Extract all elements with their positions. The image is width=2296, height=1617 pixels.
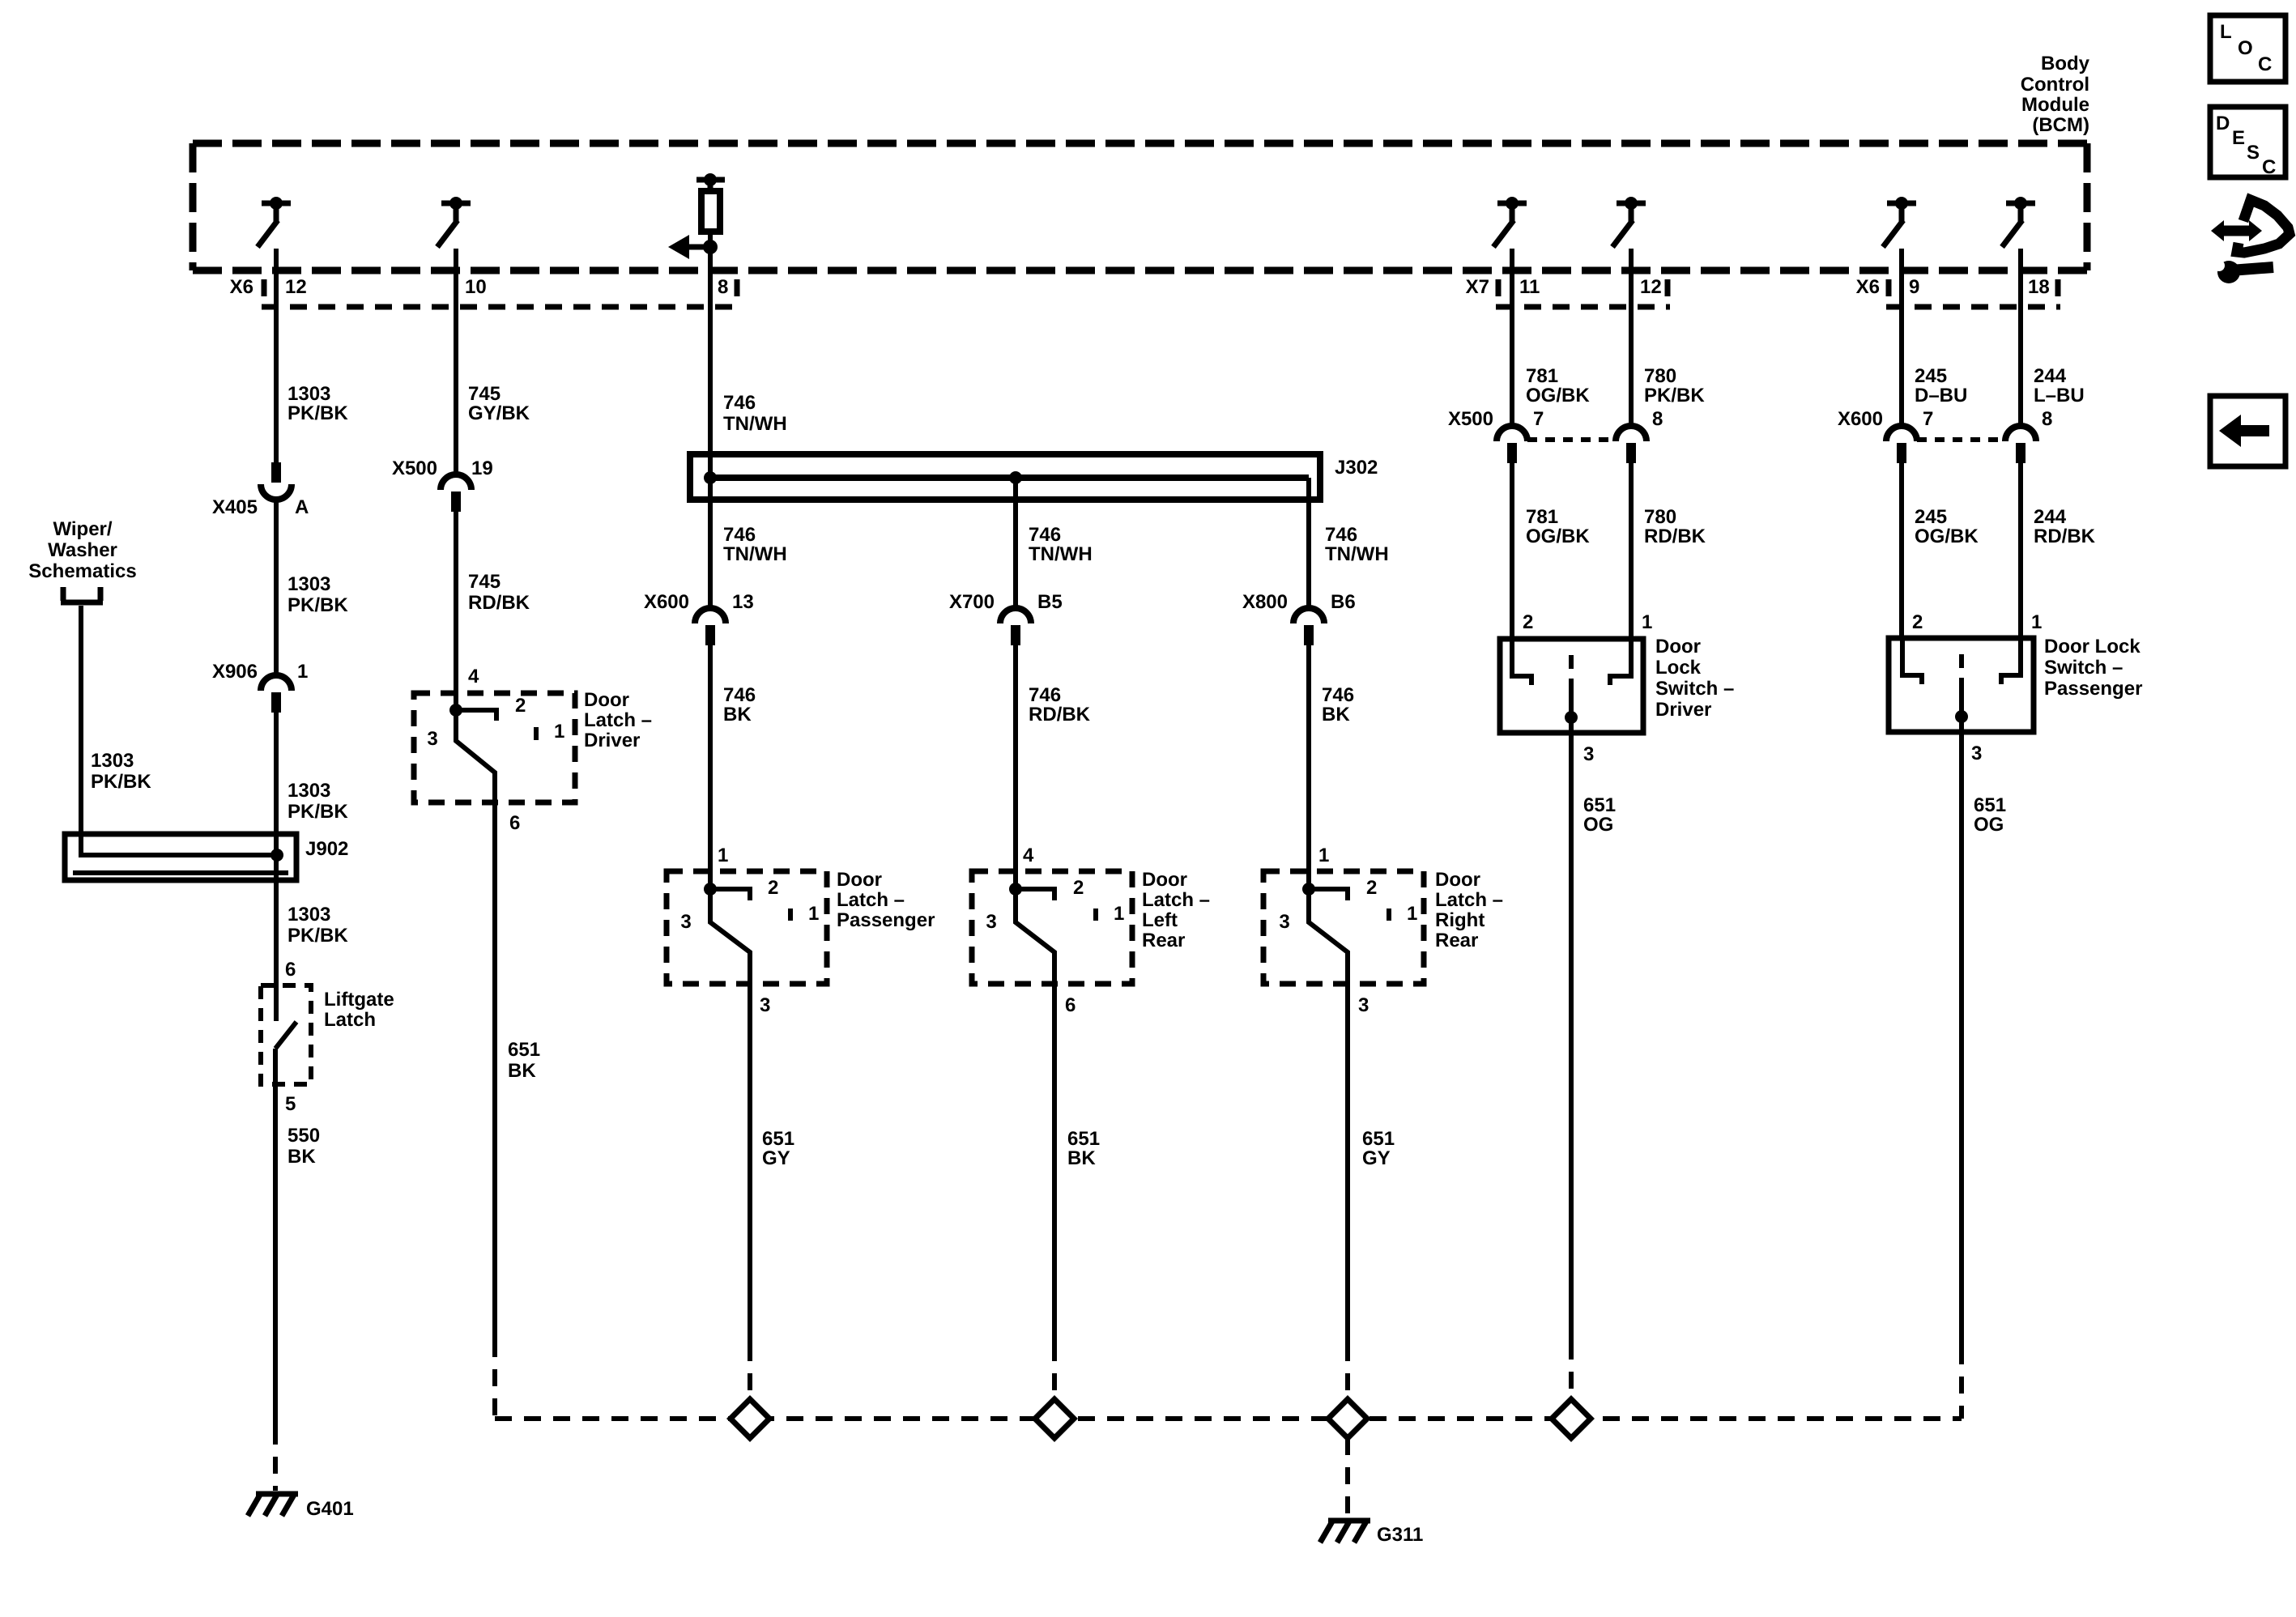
- wire label 746 TN/WH: [1029, 524, 1093, 565]
- svg-text:TN/WH: TN/WH: [723, 543, 787, 565]
- ground G311: [1320, 1521, 1370, 1543]
- wire label 1303 PK/BK: [288, 904, 348, 947]
- svg-text:244: 244: [2034, 365, 2067, 387]
- BCM output driver Q (pin X6-12): [258, 197, 291, 247]
- svg-text:4: 4: [468, 666, 479, 687]
- wire label 746 BK: [1322, 684, 1354, 726]
- svg-text:J302: J302: [1335, 457, 1378, 479]
- wire label 746 TN/WH: [1325, 524, 1389, 565]
- svg-text:3: 3: [1971, 743, 1982, 764]
- svg-text:Driver: Driver: [1655, 699, 1711, 721]
- svg-text:Body: Body: [2041, 53, 2090, 74]
- svg-text:BK: BK: [723, 704, 752, 726]
- wire 781 OG/BK (X500 to door lock switch driver): [1510, 463, 1514, 639]
- svg-text:651: 651: [1583, 794, 1616, 816]
- svg-text:6: 6: [285, 959, 296, 981]
- svg-text:C: C: [2262, 156, 2276, 178]
- svg-text:13: 13: [732, 591, 754, 613]
- svg-text:11: 11: [1519, 276, 1540, 298]
- svg-text:2: 2: [515, 695, 526, 717]
- splice diamond (651 OG driver switch): [1552, 1399, 1591, 1438]
- wire label 244 RD/BK: [2034, 506, 2096, 547]
- dashed wire to ground bus corner: [492, 1340, 497, 1419]
- svg-text:Rear: Rear: [1142, 930, 1185, 951]
- svg-text:746: 746: [1325, 524, 1357, 546]
- svg-text:746: 746: [723, 392, 756, 414]
- wire label 245 D-BU: [1915, 365, 1967, 406]
- svg-text:OG/BK: OG/BK: [1915, 526, 1979, 547]
- svg-text:Door: Door: [1435, 869, 1480, 891]
- wire 651 OG (driver lock switch to ground bus): [1569, 733, 1574, 1343]
- wire label 1303 PK/BK: [288, 573, 348, 616]
- wire 780 PK/BK (BCM X7-12 to X500): [1629, 249, 1634, 428]
- svg-text:Passenger: Passenger: [2044, 678, 2142, 700]
- wire 550 BK (liftgate latch to G401): [273, 1049, 278, 1428]
- svg-text:GY: GY: [1362, 1147, 1391, 1169]
- wire label 781 OG/BK: [1526, 365, 1590, 406]
- svg-text:OG: OG: [1583, 814, 1613, 836]
- svg-text:PK/BK: PK/BK: [288, 801, 348, 823]
- svg-text:7: 7: [1923, 408, 1933, 430]
- svg-text:Driver: Driver: [584, 730, 640, 751]
- svg-text:Module: Module: [2021, 94, 2089, 116]
- svg-text:X500: X500: [392, 457, 437, 479]
- connector X700 pin B5: [1000, 608, 1031, 645]
- svg-text:Schematics: Schematics: [28, 560, 136, 582]
- svg-text:TN/WH: TN/WH: [723, 413, 787, 435]
- off-page reference: Wiper/Washer Schematics: [28, 518, 136, 602]
- door latch passenger dashed box: [667, 871, 827, 984]
- door lock switch passenger box: [1889, 638, 2034, 732]
- BCM label: [2021, 53, 2090, 136]
- wire label 745 RD/BK: [468, 571, 530, 614]
- wire 746 TN/WH (J302 to X600): [708, 478, 713, 610]
- svg-text:19: 19: [471, 457, 493, 479]
- splice J302: [690, 454, 1320, 500]
- svg-text:Door: Door: [584, 689, 629, 711]
- svg-text:781: 781: [1526, 506, 1558, 528]
- svg-text:1: 1: [808, 903, 819, 925]
- svg-text:4: 4: [1023, 845, 1034, 866]
- svg-text:BK: BK: [1322, 704, 1350, 726]
- svg-text:Switch –: Switch –: [2044, 657, 2123, 679]
- svg-text:D–BU: D–BU: [1915, 385, 1967, 406]
- svg-text:2: 2: [1073, 877, 1084, 899]
- label Door Latch - Driver: [584, 689, 652, 751]
- wire label 651 BK: [508, 1039, 540, 1082]
- svg-text:3: 3: [427, 728, 437, 750]
- svg-text:651: 651: [762, 1128, 794, 1150]
- svg-text:PK/BK: PK/BK: [1644, 385, 1705, 406]
- svg-text:E: E: [2232, 127, 2245, 149]
- svg-text:1: 1: [554, 721, 564, 743]
- wire label 245 OG/BK: [1915, 506, 1979, 547]
- svg-text:X7: X7: [1466, 276, 1489, 298]
- ground G401: [248, 1494, 298, 1516]
- ground bus dashed wire: [495, 1416, 1962, 1421]
- label Liftgate Latch: [324, 989, 394, 1031]
- splice diamond (651 GY passenger): [731, 1399, 769, 1438]
- wire label 651 GY: [762, 1128, 794, 1169]
- svg-text:OG/BK: OG/BK: [1526, 526, 1590, 547]
- wire label 780 RD/BK: [1644, 506, 1706, 547]
- back arrow icon box: [2210, 396, 2285, 466]
- svg-text:3: 3: [986, 911, 996, 933]
- svg-text:9: 9: [1909, 276, 1919, 298]
- svg-text:B5: B5: [1037, 591, 1063, 613]
- wire label 1303 PK/BK: [91, 750, 151, 793]
- wire label 745 GY/BK: [468, 383, 530, 424]
- svg-text:G311: G311: [1377, 1524, 1423, 1546]
- svg-text:3: 3: [1358, 994, 1369, 1016]
- svg-text:5: 5: [285, 1093, 296, 1115]
- connector X600 pin 13: [695, 608, 726, 645]
- wire resistor to node, junction: [703, 232, 718, 254]
- svg-text:550: 550: [288, 1125, 320, 1147]
- wire 746 RD/BK (X700 to door latch left rear): [1013, 645, 1018, 892]
- wire 781 OG/BK (BCM X7-11 to X500): [1510, 249, 1514, 428]
- svg-text:G401: G401: [306, 1498, 354, 1520]
- wire label 780 PK/BK: [1644, 365, 1705, 406]
- liftgate latch switch blade: [275, 1022, 296, 1049]
- wire 651 GY (right rear latch to ground bus): [1345, 984, 1350, 1344]
- wire 1303 PK/BK (X906 to J902 and liftgate): [274, 713, 279, 1021]
- svg-text:Switch –: Switch –: [1655, 678, 1734, 700]
- svg-text:781: 781: [1526, 365, 1558, 387]
- svg-text:X700: X700: [949, 591, 995, 613]
- svg-text:244: 244: [2034, 506, 2067, 528]
- connector X500 pin 7: [1497, 426, 1527, 463]
- svg-text:3: 3: [680, 911, 691, 933]
- wire 746 BK (X600 to door latch passenger): [708, 645, 713, 892]
- svg-text:746: 746: [1029, 684, 1061, 706]
- svg-text:BK: BK: [508, 1060, 536, 1082]
- svg-text:1303: 1303: [288, 780, 330, 802]
- connector pin row X6 left (pins 12,10,8): [262, 279, 739, 307]
- wire 780 RD/BK (X500 to door lock switch driver): [1629, 463, 1634, 639]
- svg-text:PK/BK: PK/BK: [91, 771, 151, 793]
- svg-text:X600: X600: [1838, 408, 1883, 430]
- dashed wire to ground bus: [1569, 1343, 1574, 1400]
- svg-text:Control: Control: [2021, 74, 2089, 96]
- svg-text:L: L: [2220, 21, 2232, 43]
- svg-text:Latch –: Latch –: [1435, 889, 1503, 911]
- svg-text:Door: Door: [837, 869, 882, 891]
- door lock switch driver box: [1500, 639, 1643, 733]
- door latch right rear dashed box: [1263, 871, 1424, 984]
- svg-text:Rear: Rear: [1435, 930, 1478, 951]
- wire 651 GY (passenger latch to ground bus): [748, 984, 752, 1344]
- svg-text:1: 1: [1407, 903, 1417, 925]
- wire 651 BK (left rear latch to ground bus): [1052, 984, 1057, 1344]
- BCM output driver Q (pin X7-12): [1612, 197, 1646, 247]
- label Door Lock Switch - Driver: [1655, 636, 1734, 721]
- svg-text:Latch –: Latch –: [1142, 889, 1210, 911]
- wire label 746 TN/WH: [723, 524, 787, 565]
- connector X600 pin 7: [1886, 426, 1917, 463]
- svg-text:Latch –: Latch –: [584, 709, 652, 731]
- door latch passenger switch: [704, 883, 790, 984]
- svg-text:X906: X906: [212, 661, 258, 683]
- svg-text:8: 8: [718, 276, 728, 298]
- wire 746 TN/WH (J302 to X800): [1306, 478, 1311, 610]
- svg-text:Latch: Latch: [324, 1009, 376, 1031]
- wire 745 GY/BK (BCM X6-10 to X500): [454, 249, 458, 476]
- svg-text:D: D: [2216, 113, 2230, 134]
- svg-text:Lock: Lock: [1655, 657, 1702, 679]
- wire label 746 BK: [723, 684, 756, 726]
- svg-text:245: 245: [1915, 365, 1947, 387]
- svg-text:X600: X600: [644, 591, 689, 613]
- resistor R internal to BCM on pin X6-8: [696, 173, 725, 232]
- svg-text:6: 6: [1065, 994, 1076, 1016]
- svg-text:Right: Right: [1435, 909, 1485, 931]
- connector X500 pin 8: [1616, 426, 1646, 463]
- splice diamond (651 BK left rear): [1035, 1399, 1074, 1438]
- svg-text:RD/BK: RD/BK: [1644, 526, 1706, 547]
- svg-text:Liftgate: Liftgate: [324, 989, 394, 1011]
- wire label 746 TN/WH: [723, 392, 787, 435]
- svg-text:PK/BK: PK/BK: [288, 402, 348, 424]
- dashed wire to ground bus: [1345, 1344, 1350, 1400]
- wire 651 OG (passenger lock switch to ground bus): [1959, 732, 1964, 1347]
- wire 244 RD/BK (X600 to door lock switch passenger): [2018, 463, 2023, 638]
- wire label 746 RD/BK: [1029, 684, 1091, 726]
- svg-text:OG/BK: OG/BK: [1526, 385, 1590, 406]
- wire label 651 GY: [1362, 1128, 1395, 1169]
- svg-text:C: C: [2258, 53, 2272, 75]
- svg-text:651: 651: [1067, 1128, 1100, 1150]
- connector X500 pin 19: [441, 474, 471, 512]
- door lock switch passenger contacts: [1902, 638, 2021, 732]
- wire 746 TN/WH (J302 to X700): [1013, 478, 1018, 610]
- svg-text:X500: X500: [1448, 408, 1493, 430]
- wire 1303 PK/BK from wiper/washer: [81, 606, 277, 855]
- svg-text:780: 780: [1644, 365, 1676, 387]
- svg-text:2: 2: [1912, 611, 1923, 633]
- svg-text:Passenger: Passenger: [837, 909, 935, 931]
- wire 1303 PK/BK (BCM X6-12 to X405): [274, 249, 279, 464]
- svg-text:X6: X6: [1856, 276, 1880, 298]
- svg-text:1: 1: [718, 845, 728, 866]
- svg-text:2: 2: [1366, 877, 1377, 899]
- door latch driver switch: [449, 704, 536, 802]
- svg-text:8: 8: [2042, 408, 2052, 430]
- svg-text:12: 12: [1640, 276, 1662, 298]
- connector X500 body dashed link: [1527, 437, 1616, 442]
- svg-text:7: 7: [1533, 408, 1544, 430]
- svg-text:RD/BK: RD/BK: [1029, 704, 1091, 726]
- svg-text:Wiper/: Wiper/: [53, 518, 112, 540]
- svg-text:RD/BK: RD/BK: [468, 592, 530, 614]
- svg-text:Door: Door: [1655, 636, 1701, 657]
- svg-text:651: 651: [508, 1039, 540, 1061]
- dashed wire to ground bus: [748, 1344, 752, 1400]
- label Door Latch - Right Rear: [1435, 869, 1503, 951]
- repair instructions icon (connector with arrows and wrench): [2211, 200, 2290, 283]
- svg-text:O: O: [2238, 37, 2253, 59]
- svg-text:1: 1: [1318, 845, 1329, 866]
- BCM output driver Q (pin X6-18): [2002, 197, 2035, 247]
- dashed wire diamond to G311: [1345, 1438, 1350, 1516]
- svg-text:780: 780: [1644, 506, 1676, 528]
- svg-text:1: 1: [1642, 611, 1652, 633]
- dashed wire to ground: [273, 1428, 278, 1491]
- BCM output driver Q (pin X6-9): [1883, 197, 1916, 247]
- signal arrow (BCM input sense): [668, 235, 710, 259]
- wire label 781 OG/BK: [1526, 506, 1590, 547]
- svg-text:1: 1: [2031, 611, 2042, 633]
- connector X600 pin 8: [2005, 426, 2036, 463]
- svg-text:TN/WH: TN/WH: [1325, 543, 1389, 565]
- svg-text:GY: GY: [762, 1147, 790, 1169]
- svg-text:12: 12: [285, 276, 307, 298]
- svg-text:Door Lock: Door Lock: [2044, 636, 2141, 657]
- wire 1303 PK/BK (X405 to X906): [274, 500, 279, 677]
- svg-text:746: 746: [1029, 524, 1061, 546]
- connector pin row X7 (pins 11,12): [1496, 279, 1670, 307]
- dashed wire corner to ground bus: [1959, 1347, 1964, 1419]
- wire label 1303 PK/BK: [288, 383, 348, 424]
- splice diamond (651 GY right rear): [1328, 1399, 1367, 1438]
- wire 746 BK (X800 to door latch right rear): [1306, 645, 1311, 892]
- svg-text:Left: Left: [1142, 909, 1178, 931]
- svg-text:10: 10: [465, 276, 487, 298]
- wire 244 L-BU (BCM X6-18 to X600): [2018, 249, 2023, 428]
- svg-text:1: 1: [1114, 903, 1124, 925]
- svg-text:1303: 1303: [288, 573, 330, 595]
- label Door Lock Switch - Passenger: [2044, 636, 2142, 700]
- svg-text:1303: 1303: [288, 383, 330, 405]
- svg-text:651: 651: [1362, 1128, 1395, 1150]
- LOC icon box: [2210, 15, 2285, 82]
- svg-text:J902: J902: [305, 838, 348, 860]
- svg-text:L–BU: L–BU: [2034, 385, 2085, 406]
- BCM output driver Q (pin X7-11): [1493, 197, 1527, 247]
- svg-text:3: 3: [760, 994, 770, 1016]
- svg-text:651: 651: [1974, 794, 2006, 816]
- svg-text:GY/BK: GY/BK: [468, 402, 530, 424]
- svg-text:Latch –: Latch –: [837, 889, 905, 911]
- connector X906 pin 1: [261, 675, 292, 713]
- svg-text:6: 6: [509, 812, 520, 834]
- svg-text:2: 2: [768, 877, 778, 899]
- label Door Latch - Passenger: [837, 869, 935, 931]
- connector X800 pin B6: [1293, 608, 1324, 645]
- svg-text:RD/BK: RD/BK: [2034, 526, 2096, 547]
- door latch driver dashed box: [414, 693, 575, 802]
- svg-text:BK: BK: [1067, 1147, 1096, 1169]
- wire 746 TN/WH (BCM X6-8 to J302): [708, 247, 713, 478]
- svg-text:S: S: [2247, 142, 2260, 164]
- svg-text:746: 746: [723, 524, 756, 546]
- svg-text:245: 245: [1915, 506, 1947, 528]
- connector X600 body dashed link: [1917, 437, 2005, 442]
- svg-text:PK/BK: PK/BK: [288, 925, 348, 947]
- svg-text:Door: Door: [1142, 869, 1187, 891]
- svg-text:746: 746: [1322, 684, 1354, 706]
- door latch right rear switch: [1302, 883, 1389, 984]
- wire 651 BK (door latch driver to ground bus): [492, 802, 497, 1340]
- svg-text:2: 2: [1523, 611, 1533, 633]
- svg-text:3: 3: [1279, 911, 1289, 933]
- svg-text:18: 18: [2028, 276, 2050, 298]
- svg-text:1: 1: [297, 661, 308, 683]
- door latch left rear dashed box: [972, 871, 1132, 984]
- svg-text:745: 745: [468, 383, 501, 405]
- door lock switch driver contacts: [1512, 639, 1631, 733]
- svg-text:OG: OG: [1974, 814, 2004, 836]
- svg-text:X405: X405: [212, 496, 258, 518]
- svg-text:746: 746: [723, 684, 756, 706]
- dashed wire to ground bus: [1052, 1344, 1057, 1400]
- wire label 651 OG: [1583, 794, 1616, 836]
- splice J902: [65, 834, 296, 880]
- svg-text:X6: X6: [230, 276, 253, 298]
- svg-text:8: 8: [1652, 408, 1663, 430]
- wire label 651 OG: [1974, 794, 2006, 836]
- liftgate latch dashed box: [261, 985, 311, 1084]
- label Door Latch - Left Rear: [1142, 869, 1210, 951]
- svg-text:A: A: [295, 496, 309, 518]
- BCM output driver Q (pin X6-10): [437, 197, 471, 247]
- svg-text:PK/BK: PK/BK: [288, 594, 348, 616]
- svg-text:(BCM): (BCM): [2032, 114, 2089, 136]
- door latch left rear switch: [1009, 883, 1096, 984]
- wire label 244 L-BU: [2034, 365, 2085, 406]
- svg-text:1303: 1303: [91, 750, 134, 772]
- svg-text:Washer: Washer: [48, 539, 117, 561]
- connector pin row X6 right (pins 9,18): [1886, 279, 2060, 307]
- wire label 1303 PK/BK: [288, 780, 348, 823]
- wire label 550 BK: [288, 1125, 320, 1168]
- wire 745 RD/BK (X500 to door latch driver): [454, 512, 458, 713]
- wire label 651 BK: [1067, 1128, 1100, 1169]
- DESC icon box: [2210, 107, 2285, 178]
- svg-text:B6: B6: [1331, 591, 1356, 613]
- wire 245 OG/BK (X600 to door lock switch passenger): [1899, 463, 1904, 638]
- svg-text:3: 3: [1583, 743, 1594, 765]
- connector X405 pin A: [261, 462, 292, 500]
- svg-text:745: 745: [468, 571, 501, 593]
- svg-text:TN/WH: TN/WH: [1029, 543, 1093, 565]
- svg-text:1303: 1303: [288, 904, 330, 926]
- wire 245 D-BU (BCM X6-9 to X600): [1899, 249, 1904, 428]
- svg-text:X800: X800: [1242, 591, 1288, 613]
- Body Control Module (BCM) dashed box: [193, 143, 2087, 270]
- svg-text:BK: BK: [288, 1146, 316, 1168]
